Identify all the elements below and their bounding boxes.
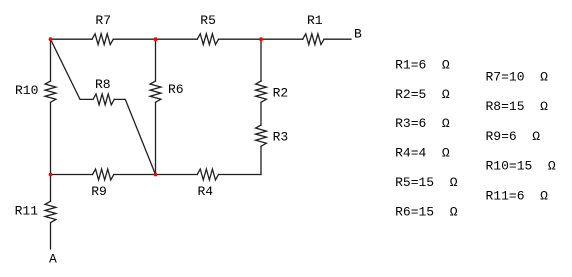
resistor R9 — [93, 169, 114, 180]
svg-text:R10=15 Ω: R10=15 Ω — [486, 159, 556, 174]
svg-text:R5: R5 — [200, 13, 216, 28]
resistor R3 — [256, 125, 267, 146]
svg-text:R9: R9 — [91, 184, 107, 199]
wire to node A — [50, 223, 52, 249]
svg-text:R1: R1 — [307, 13, 323, 28]
svg-text:R4=4 Ω: R4=4 Ω — [395, 146, 450, 161]
wire left below junction — [50, 175, 52, 202]
junction top-right — [259, 37, 263, 41]
wire bottom middle — [114, 174, 197, 176]
wire left vertical upper — [50, 39, 52, 81]
svg-text:R6: R6 — [168, 82, 184, 97]
junction bottom-left — [49, 173, 53, 177]
resistor R4 — [197, 169, 218, 180]
svg-text:R7: R7 — [95, 13, 111, 28]
wire top middle-1 — [113, 38, 197, 40]
wire top middle-2 — [219, 38, 303, 40]
wire middle vertical lower — [155, 102, 157, 174]
svg-text:R10: R10 — [15, 83, 38, 98]
svg-text:R6=15 Ω: R6=15 Ω — [395, 204, 458, 219]
wire bottom-left segment — [51, 174, 93, 176]
svg-text:R3=6 Ω: R3=6 Ω — [395, 116, 450, 131]
resistor R1 — [303, 34, 324, 45]
wire to node B — [324, 38, 351, 40]
svg-text:B: B — [354, 26, 362, 41]
wire right vertical lower — [260, 146, 262, 174]
wire top-left segment — [51, 38, 93, 40]
svg-text:R2=5 Ω: R2=5 Ω — [395, 87, 450, 102]
wire diagonal from top-left node — [51, 39, 94, 99]
wire diagonal to bottom junction — [114, 99, 155, 174]
resistor R10 — [45, 81, 56, 102]
junction top-left — [49, 37, 53, 41]
svg-text:R11: R11 — [15, 203, 39, 218]
wire right vertical upper — [260, 39, 262, 81]
svg-text:R9=6 Ω: R9=6 Ω — [486, 129, 541, 144]
svg-text:R1=6 Ω: R1=6 Ω — [395, 57, 450, 72]
svg-text:R8: R8 — [95, 77, 111, 92]
resistor R6 — [150, 81, 161, 102]
resistor R2 — [256, 81, 267, 102]
svg-text:R2: R2 — [273, 85, 289, 100]
resistor R5 — [197, 34, 218, 45]
resistor R7 — [92, 34, 113, 45]
svg-text:R11=6 Ω: R11=6 Ω — [486, 188, 549, 203]
wire bottom-right segment — [219, 174, 262, 176]
svg-text:R5=15 Ω: R5=15 Ω — [395, 175, 458, 190]
svg-text:R8=15 Ω: R8=15 Ω — [486, 99, 549, 114]
svg-text:R7=10 Ω: R7=10 Ω — [486, 69, 549, 84]
svg-text:R4: R4 — [198, 184, 214, 199]
wire left vertical lower — [50, 102, 52, 174]
wire middle vertical upper — [155, 39, 157, 81]
resistor R11 — [45, 201, 56, 222]
junction bottom-middle — [154, 173, 158, 177]
junction top-middle — [154, 37, 158, 41]
svg-text:A: A — [49, 251, 57, 266]
svg-text:R3: R3 — [273, 129, 289, 144]
wire right vertical middle — [260, 102, 262, 125]
resistor R8 — [93, 94, 114, 105]
